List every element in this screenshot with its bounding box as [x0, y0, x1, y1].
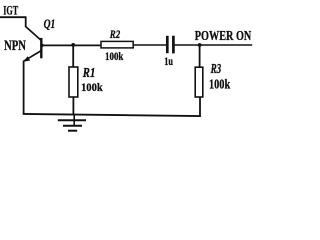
svg-text:R3: R3	[210, 61, 221, 76]
svg-text:NPN: NPN	[4, 38, 26, 54]
svg-text:POWER ON: POWER ON	[195, 28, 252, 43]
svg-text:1u: 1u	[164, 56, 173, 68]
svg-text:R2: R2	[109, 27, 120, 41]
svg-text:IGT: IGT	[3, 3, 18, 18]
svg-text:100k: 100k	[81, 80, 103, 94]
svg-text:100k: 100k	[105, 51, 124, 63]
svg-text:Q1: Q1	[44, 16, 56, 31]
svg-text:100k: 100k	[209, 77, 230, 92]
svg-text:R1: R1	[82, 66, 95, 81]
